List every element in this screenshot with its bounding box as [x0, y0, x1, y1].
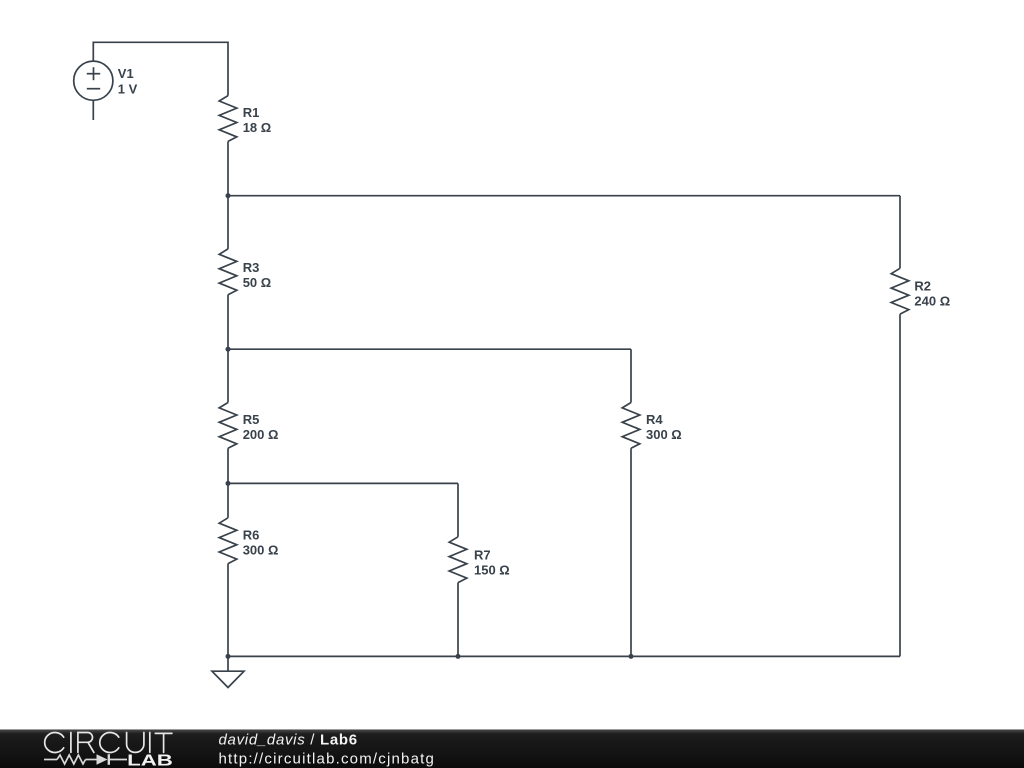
wire R3 bottom lead — [227, 295, 229, 403]
wire node1 horizontal — [228, 195, 900, 197]
wire R6 bottom lead — [227, 564, 229, 657]
voltage source V1 — [74, 61, 113, 100]
wire R2 bottom lead — [899, 314, 901, 656]
label R3 value — [243, 275, 272, 290]
resistor R1 — [219, 96, 237, 142]
junction ground-main — [226, 654, 231, 659]
wire R4 top lead — [630, 349, 632, 402]
junction node2 — [226, 347, 231, 352]
CircuitLab logo wordmark CIRCUIT — [45, 733, 172, 753]
junction node1 — [226, 193, 231, 198]
junction node3 — [226, 481, 231, 486]
wire R5 bottom lead — [227, 448, 229, 518]
junction ground-R4 — [629, 654, 634, 659]
wire node2 horizontal — [228, 348, 631, 350]
label R2 designator — [914, 278, 931, 293]
wire V1 bottom stub — [92, 100, 94, 120]
label R7 designator — [474, 548, 491, 563]
footer title david_davis / Lab6 — [219, 732, 358, 749]
wire R2 top lead — [899, 196, 901, 269]
wire R1 bottom lead — [227, 141, 229, 249]
footer url — [219, 750, 436, 767]
label R1 designator — [243, 105, 260, 120]
resistor R7 — [449, 537, 467, 583]
label V1 designator — [118, 66, 134, 81]
label R3 designator — [243, 260, 260, 275]
label R6 value — [243, 543, 279, 558]
label R2 value — [914, 293, 950, 308]
label R4 value — [646, 427, 682, 442]
resistor R3 — [219, 249, 237, 295]
svg-text:http://circuitlab.com/cjnbatg: http://circuitlab.com/cjnbatg — [219, 750, 436, 767]
svg-text:LAB: LAB — [127, 751, 173, 768]
wire R4 bottom lead — [630, 448, 632, 656]
resistor R4 — [622, 403, 640, 449]
resistor R6 — [219, 518, 237, 564]
label R7 value — [474, 563, 510, 578]
label V1 value — [118, 81, 138, 96]
wire R7 bottom lead — [457, 583, 459, 657]
label R5 value — [243, 427, 279, 442]
label R4 designator — [646, 412, 663, 427]
svg-text:david_davis / Lab6: david_davis / Lab6 — [219, 732, 358, 749]
wire bottom horizontal — [228, 655, 900, 657]
label R5 designator — [243, 412, 260, 427]
CircuitLab logo resistor-diode line — [44, 754, 127, 765]
label R6 designator — [243, 528, 260, 543]
CircuitLab logo wordmark LAB — [127, 751, 173, 768]
ground — [212, 656, 244, 687]
resistor R5 — [219, 403, 237, 449]
wire node3 horizontal — [228, 482, 458, 484]
label R1 value — [243, 120, 272, 135]
wire R7 top lead — [457, 483, 459, 536]
resistor R2 — [891, 268, 909, 314]
wire top horizontal — [93, 42, 228, 95]
junction ground-R7 — [456, 654, 461, 659]
